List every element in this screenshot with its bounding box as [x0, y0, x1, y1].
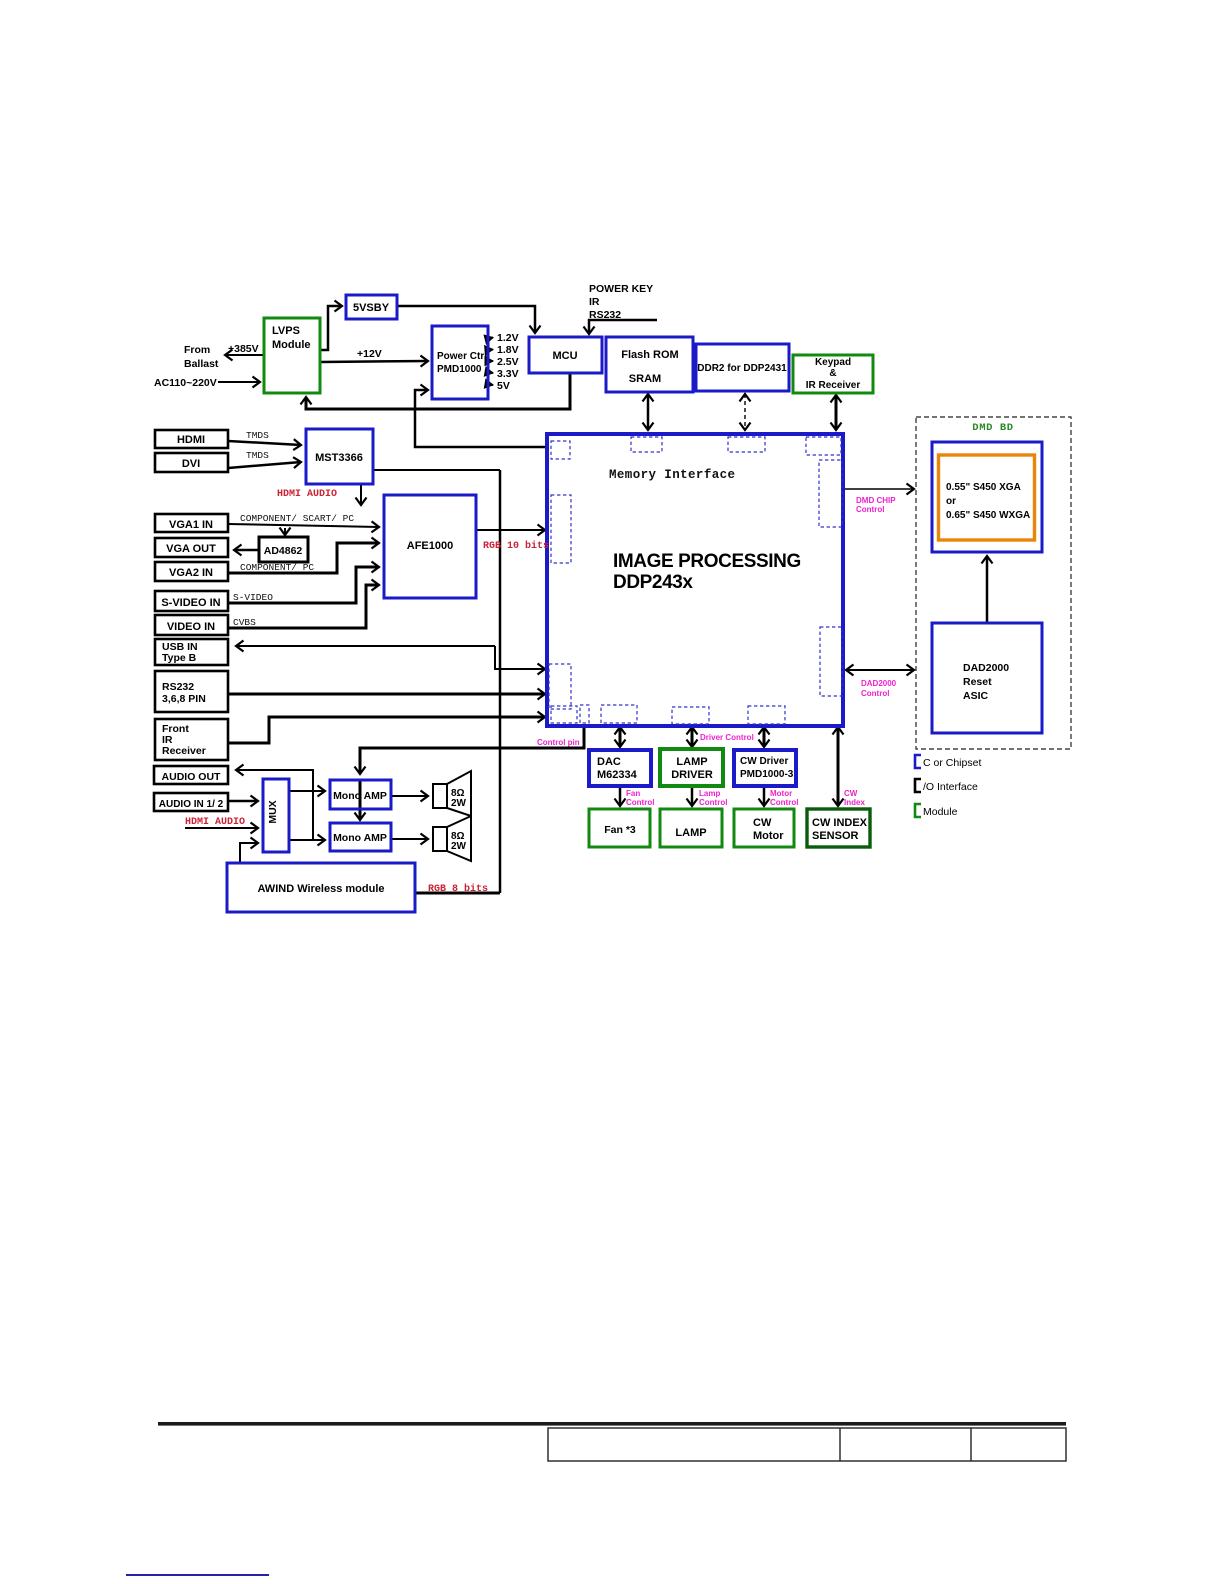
wire MST3366 right to vertical bus [373, 469, 500, 471]
svg-text:ASIC: ASIC [963, 690, 989, 702]
svg-text:1.8V: 1.8V [497, 344, 519, 356]
svg-text:RS232: RS232 [162, 681, 194, 693]
svg-text:LAMP: LAMP [676, 756, 707, 768]
chip DAC M62334 [589, 750, 651, 786]
pin box bottom 4 [672, 707, 709, 724]
port USB IN Type B [155, 639, 228, 665]
legend Module [915, 804, 958, 818]
wire DDP243x to DAC [619, 727, 622, 747]
svg-text:2W: 2W [451, 841, 467, 852]
svg-text:3.3V: 3.3V [497, 368, 519, 380]
svg-text:TMDS: TMDS [246, 450, 269, 461]
svg-text:DDR2 for DDP2431: DDR2 for DDP2431 [697, 363, 787, 374]
svg-text:DDP243x: DDP243x [613, 572, 693, 593]
svg-text:2.5V: 2.5V [497, 356, 519, 368]
svg-text:AD4862: AD4862 [264, 545, 303, 557]
wire AWIND RGB 8 bits to bus [415, 892, 500, 895]
svg-text:5VSBY: 5VSBY [353, 302, 390, 314]
svg-text:COMPONENT/ SCART/ PC: COMPONENT/ SCART/ PC [240, 513, 354, 524]
pin box bottom 3 [601, 705, 637, 723]
svg-text:MUX: MUX [267, 800, 279, 823]
wire DMD CHIP control [843, 488, 914, 490]
port Front IR Receiver [155, 719, 228, 760]
pin box bottom 5 [748, 706, 785, 724]
port VIDEO IN [155, 615, 228, 635]
svg-text:+385V: +385V [228, 343, 259, 355]
legend IC or Chipset [915, 755, 981, 769]
svg-text:Control: Control [856, 505, 884, 514]
svg-text:DMD BD: DMD BD [972, 422, 1013, 434]
chip DDR2 for DDP2431 [696, 344, 789, 391]
svg-text:Keypad: Keypad [815, 357, 851, 368]
module LVPS [264, 318, 320, 393]
svg-text:3,6,8 PIN: 3,6,8 PIN [162, 693, 206, 705]
svg-text:Control: Control [699, 798, 727, 807]
svg-text:DRIVER: DRIVER [671, 769, 713, 781]
svg-text:0.55" S450 XGA: 0.55" S450 XGA [946, 482, 1021, 493]
svg-text:SRAM: SRAM [629, 373, 661, 385]
svg-text:Index: Index [844, 798, 865, 807]
svg-text:TMDS: TMDS [246, 430, 269, 441]
pin box right upper [819, 460, 842, 527]
chip MCU [529, 337, 602, 373]
svg-text:Control pin: Control pin [537, 738, 580, 747]
svg-text:HDMI AUDIO: HDMI AUDIO [277, 489, 337, 500]
pin box bottom 2 [580, 705, 589, 723]
wire VIDEO IN CVBS to AFE1000 [228, 585, 379, 628]
wire +12V LVPS to Power Ctrl [320, 361, 428, 362]
speaker 2 [433, 816, 471, 861]
wire From Ballast to LVPS [225, 354, 264, 356]
svg-text:AFE1000: AFE1000 [407, 540, 453, 552]
pin box top-left [551, 441, 570, 459]
wire HDMI TMDS to MST3366 [228, 441, 301, 445]
svg-text:DAC: DAC [597, 756, 621, 768]
pin box top 3 [728, 437, 765, 452]
wire S-VIDEO IN to AFE1000 [228, 567, 379, 603]
svg-text:AUDIO IN 1/ 2: AUDIO IN 1/ 2 [159, 799, 224, 810]
svg-text:S-VIDEO IN: S-VIDEO IN [161, 597, 220, 609]
svg-text:Module: Module [923, 806, 958, 818]
svg-text:Fan: Fan [626, 789, 640, 798]
footer rule [158, 1422, 1066, 1426]
svg-text:PMD1000: PMD1000 [437, 364, 482, 375]
wire Keypad to DDP243x [835, 395, 838, 430]
svg-text:DAD2000: DAD2000 [963, 662, 1009, 674]
chip 5VSBY [346, 295, 397, 319]
wire to AUDIO OUT [236, 770, 313, 840]
wire DAD2000 control [846, 669, 914, 671]
svg-text:RS232: RS232 [589, 309, 621, 321]
wire DAD2000 to DMD chip [986, 556, 989, 623]
chip CW Driver PMD1000-3 [734, 750, 796, 786]
svg-text:From: From [184, 344, 210, 356]
wire Front IR to DDP243x [228, 717, 545, 743]
svg-text:Lamp: Lamp [699, 789, 720, 798]
wire Mono AMP 1 to speaker 1 [391, 795, 428, 797]
svg-text:&: & [829, 368, 836, 379]
wire Power Ctrl output 2.5V [487, 360, 493, 362]
chip MUX [263, 779, 289, 852]
svg-text:5V: 5V [497, 380, 510, 392]
wire DDP243x to Power Ctrl [415, 390, 547, 447]
wire 5VSBY to MCU [397, 306, 535, 333]
svg-text:MST3366: MST3366 [315, 452, 363, 464]
svg-text:Mono AMP: Mono AMP [333, 832, 387, 844]
wire MUX to Mono AMP 2 [289, 839, 325, 841]
svg-text:COMPONENT/ PC: COMPONENT/ PC [240, 562, 314, 573]
wire Control pin through Mono AMP to Mono AMP 2 [359, 780, 362, 820]
chip AFE1000 [384, 495, 476, 598]
svg-text:IMAGE PROCESSING: IMAGE PROCESSING [613, 551, 801, 572]
chip IMAGE PROCESSING DDP243x [547, 434, 843, 726]
svg-text:CW INDEX: CW INDEX [812, 817, 868, 829]
wire Flash ROM to DDP243x [647, 394, 650, 430]
port RS232 3,6,8 PIN [155, 671, 228, 712]
module CW Motor [734, 809, 794, 847]
svg-text:RGB 10 bits: RGB 10 bits [483, 540, 549, 552]
svg-text:HDMI: HDMI [177, 434, 205, 446]
wire Power Ctrl output 3.3V [487, 372, 493, 373]
wire AUDIO IN to MUX [228, 800, 258, 803]
port VGA2 IN [155, 562, 228, 581]
svg-text:CW: CW [844, 789, 858, 798]
legend I/O Interface [915, 779, 978, 793]
port VGA OUT [155, 538, 228, 557]
wire MCU bottom loop to LVPS [306, 373, 570, 409]
svg-text:Ballast: Ballast [184, 358, 219, 370]
svg-text:VIDEO IN: VIDEO IN [167, 621, 215, 633]
port AUDIO IN 1/2 [154, 793, 228, 811]
svg-text:Control: Control [861, 689, 889, 698]
svg-text:LAMP: LAMP [675, 827, 706, 839]
wire AWIND to MUX [240, 843, 258, 863]
svg-text:AWIND Wireless module: AWIND Wireless module [257, 883, 384, 895]
wire RS232 to DDP243x [228, 693, 545, 696]
svg-text:1.2V: 1.2V [497, 332, 519, 344]
chip Mono AMP 1 [330, 780, 391, 809]
chip Flash ROM SRAM [606, 337, 693, 392]
svg-text:Memory Interface: Memory Interface [609, 468, 735, 482]
svg-text:Driver Control: Driver Control [700, 733, 754, 742]
chip DMD [932, 442, 1042, 552]
wire Control pin from DDP243x to Mono AMP [360, 726, 584, 774]
svg-text:+12V: +12V [357, 348, 382, 360]
svg-text:RGB 8 bits: RGB 8 bits [428, 883, 488, 895]
svg-text:MCU: MCU [552, 350, 577, 362]
svg-text:Control: Control [770, 798, 798, 807]
port S-VIDEO IN [155, 591, 228, 611]
svg-text:Type B: Type B [162, 652, 197, 664]
svg-text:IR Receiver: IR Receiver [806, 380, 861, 391]
wire VGA2 IN to AFE1000 [228, 543, 379, 573]
wire Mono AMP 2 to speaker 2 [391, 838, 428, 840]
svg-text:Mono AMP: Mono AMP [333, 790, 387, 802]
svg-text:VGA OUT: VGA OUT [166, 543, 216, 555]
module CW INDEX SENSOR [807, 809, 870, 847]
svg-text:DVI: DVI [182, 458, 200, 470]
svg-text:Flash ROM: Flash ROM [621, 349, 678, 361]
wire DAC to Fan [619, 787, 622, 806]
footer table [548, 1428, 1066, 1461]
svg-text:LVPS: LVPS [272, 325, 300, 337]
svg-text:Reset: Reset [963, 676, 992, 688]
svg-text:DAD2000: DAD2000 [861, 679, 897, 688]
wire LVPS to 5VSBY [320, 306, 342, 350]
svg-text:Motor: Motor [753, 830, 784, 842]
svg-text:IR: IR [589, 296, 600, 308]
svg-text:CW Driver: CW Driver [740, 756, 788, 767]
svg-text:Control: Control [626, 798, 654, 807]
wire VGA1 branch into AD4862 [284, 528, 286, 535]
svg-text:0.65" S450 WXGA: 0.65" S450 WXGA [946, 510, 1030, 521]
svg-text:VGA2 IN: VGA2 IN [169, 567, 213, 579]
wire HDMI AUDIO to MUX [185, 827, 258, 829]
wire DDR2 dashed to DDP243x [744, 394, 746, 430]
wire VGA1 IN to AFE1000 [228, 524, 379, 527]
wire AFE1000 RGB 10 bits to DDP243x [476, 529, 545, 531]
svg-text:Module: Module [272, 339, 311, 351]
chip DAD2000 Reset ASIC [932, 623, 1042, 733]
wire LAMP DRIVER to LAMP [691, 787, 694, 806]
svg-text:HDMI AUDIO: HDMI AUDIO [185, 817, 245, 828]
svg-text:Power Ctrl: Power Ctrl [437, 351, 487, 362]
svg-text:DMD CHIP: DMD CHIP [856, 496, 896, 505]
pin box right lower [820, 627, 842, 696]
svg-text:M62334: M62334 [597, 769, 638, 781]
svg-text:POWER KEY: POWER KEY [589, 283, 653, 295]
wire Power Ctrl output 1.8V [487, 349, 493, 352]
svg-text:S-VIDEO: S-VIDEO [233, 592, 273, 603]
svg-text:AUDIO OUT: AUDIO OUT [162, 771, 222, 783]
svg-text:C or Chipset: C or Chipset [923, 757, 981, 769]
footer link line [126, 1574, 269, 1576]
pin box left lower [549, 664, 571, 709]
svg-text:VGA1 IN: VGA1 IN [169, 519, 213, 531]
module Keypad and IR Receiver [793, 355, 873, 393]
wire USB bend into DDP243x [495, 646, 545, 669]
wire DDP243x to LAMP DRIVER [691, 727, 694, 747]
module AWIND Wireless [227, 863, 415, 912]
module Fan x3 [589, 809, 650, 847]
pin box top 2 [631, 437, 662, 452]
module LAMP DRIVER [660, 749, 723, 786]
chip Power Ctrl PMD1000 [432, 326, 488, 399]
wire DDP243x to CW INDEX SENSOR [837, 727, 840, 806]
svg-text:CVBS: CVBS [233, 617, 256, 628]
svg-text:Motor: Motor [770, 789, 792, 798]
chip Mono AMP 2 [330, 823, 391, 851]
module LAMP [660, 809, 722, 847]
pin box bottom 1 [551, 706, 577, 723]
svg-text:SENSOR: SENSOR [812, 830, 859, 842]
svg-text:2W: 2W [451, 798, 467, 809]
wire vertical bus x=500 [499, 470, 502, 893]
port HDMI [155, 430, 228, 448]
pin box top right [806, 437, 841, 455]
svg-text:Receiver: Receiver [162, 745, 206, 757]
pin box left upper [551, 495, 571, 563]
wire CW Driver to CW Motor [763, 787, 766, 806]
port DVI [155, 453, 228, 472]
svg-text:PMD1000-3: PMD1000-3 [740, 769, 794, 780]
wire DDP243x to CW Driver [763, 727, 766, 747]
chip AD4862 [259, 537, 308, 562]
svg-text:CW: CW [753, 817, 772, 829]
wire USB to DDP243x [236, 645, 495, 647]
port AUDIO OUT [154, 766, 228, 784]
svg-text:AC110~220V: AC110~220V [154, 377, 217, 389]
svg-text:or: or [946, 496, 956, 507]
wire Power Ctrl output 5V [487, 384, 493, 385]
wire MUX to Mono AMP 1 [289, 790, 325, 792]
wire DVI TMDS to MST3366 [228, 462, 301, 468]
wire AC110~220V into LVPS [218, 381, 260, 383]
port VGA1 IN [155, 514, 228, 532]
wire AD4862 to VGA OUT [234, 549, 259, 552]
wire Power Ctrl output 1.2V [487, 338, 493, 340]
chip MST3366 [306, 429, 373, 484]
speaker 1 [433, 771, 471, 816]
wire POWER KEY IR RS232 into MCU [589, 320, 657, 334]
wire MST3366 HDMI audio down arrow [360, 484, 362, 505]
svg-text:/O Interface: /O Interface [923, 781, 978, 793]
DMD BD dashed board outline [916, 417, 1071, 749]
svg-text:Fan *3: Fan *3 [604, 824, 636, 836]
